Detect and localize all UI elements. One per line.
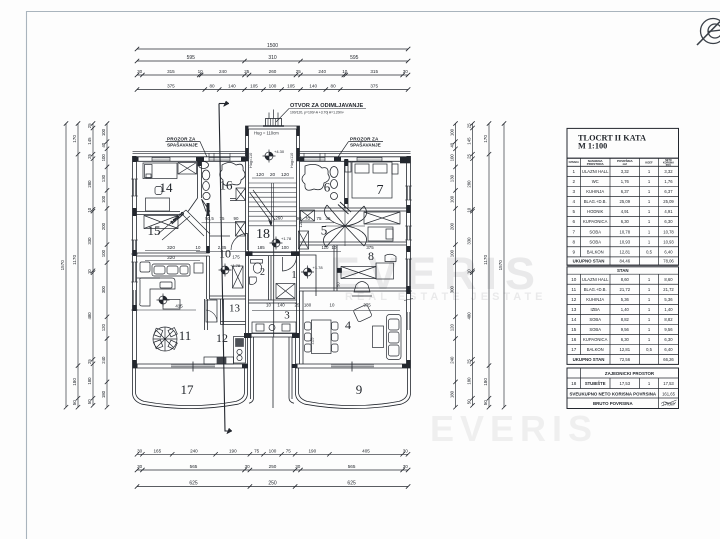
svg-text:11: 11	[571, 287, 576, 292]
bottom dimension chain 30/165/240...	[137, 453, 408, 455]
svg-text:12,81: 12,81	[620, 249, 631, 254]
svg-text:KUPAONICA: KUPAONICA	[583, 337, 608, 342]
svg-text:OZNAKA: OZNAKA	[569, 161, 579, 164]
svg-text:3: 3	[284, 310, 290, 322]
svg-text:480: 480	[87, 312, 92, 320]
svg-text:260: 260	[269, 69, 277, 74]
svg-text:1: 1	[648, 317, 651, 322]
table rows apartment 2	[567, 273, 679, 275]
svg-text:+1.78: +1.78	[313, 265, 324, 270]
interior dim lines	[202, 222, 246, 224]
svg-text:2: 2	[260, 267, 265, 278]
svg-text:140: 140	[309, 84, 317, 89]
room 4 sofa	[353, 304, 401, 359]
svg-text:13: 13	[229, 303, 241, 315]
svg-text:1: 1	[648, 287, 651, 292]
svg-text:25: 25	[295, 303, 300, 308]
svg-text:70: 70	[305, 216, 310, 221]
svg-text:320: 320	[167, 255, 175, 261]
svg-text:1570: 1570	[60, 260, 65, 271]
svg-text:1: 1	[648, 277, 651, 282]
svg-text:75: 75	[220, 216, 225, 221]
svg-text:175: 175	[232, 255, 240, 260]
svg-text:66,26: 66,26	[663, 357, 674, 362]
svg-text:320: 320	[167, 245, 175, 251]
svg-text:5,36: 5,36	[621, 297, 630, 302]
closets X right of stair tower	[299, 210, 315, 249]
svg-text:9: 9	[573, 249, 576, 254]
svg-text:KUHINJA: KUHINJA	[586, 189, 604, 194]
svg-text:25: 25	[244, 69, 250, 74]
svg-text:100: 100	[269, 84, 277, 89]
svg-text:120: 120	[298, 220, 303, 228]
svg-text:1: 1	[648, 179, 651, 184]
svg-text:16: 16	[571, 337, 577, 342]
svg-text:13: 13	[571, 307, 577, 312]
svg-text:300: 300	[450, 286, 455, 294]
room 15 closet X	[144, 216, 178, 229]
svg-text:6,30: 6,30	[664, 219, 673, 224]
svg-text:8,60: 8,60	[621, 277, 630, 282]
balcony doors bottom wall	[171, 365, 374, 367]
svg-text:1: 1	[648, 327, 651, 332]
stair tower walls	[246, 126, 300, 334]
watermark	[330, 248, 598, 449]
bottom dimension chain 30/565/30/250	[137, 469, 408, 471]
svg-text:1: 1	[648, 199, 651, 204]
svg-text:100: 100	[281, 245, 289, 250]
svg-text:OTVOR ZA ODIMLJAVANJE: OTVOR ZA ODIMLJAVANJE	[290, 103, 364, 109]
svg-text:75: 75	[317, 216, 322, 221]
svg-text:BALKON: BALKON	[587, 249, 604, 254]
svg-text:17,53: 17,53	[620, 381, 631, 386]
svg-text:8: 8	[368, 249, 374, 263]
svg-text:50: 50	[72, 400, 77, 406]
svg-text:1570: 1570	[498, 260, 503, 271]
svg-text:9,56: 9,56	[621, 327, 630, 332]
svg-text:18: 18	[571, 381, 577, 386]
svg-text:KOEF: KOEF	[645, 161, 653, 165]
top dimension chain 1500	[137, 48, 408, 50]
bathroom 16 fixtures	[199, 162, 246, 200]
svg-text:405: 405	[362, 449, 370, 454]
svg-text:7: 7	[377, 183, 384, 198]
svg-text:145: 145	[467, 137, 472, 145]
room 4 dining table	[305, 320, 339, 354]
svg-text:75: 75	[254, 449, 260, 454]
svg-text:2,35: 2,35	[218, 245, 227, 250]
svg-text:10,93: 10,93	[663, 239, 674, 244]
balcony 9 outline	[296, 368, 411, 409]
svg-text:1,76: 1,76	[621, 179, 630, 184]
furniture room 14 bed	[143, 163, 177, 195]
svg-text:8,60: 8,60	[664, 277, 673, 282]
svg-text:25: 25	[296, 69, 302, 74]
svg-text:KUHINJA: KUHINJA	[586, 297, 604, 302]
interior walls	[137, 160, 407, 365]
svg-text:BLAG.+D.B.: BLAG.+D.B.	[584, 287, 607, 292]
svg-text:100: 100	[450, 249, 455, 257]
bathroom 6 fixtures	[302, 164, 338, 199]
balcony door mullions	[193, 362, 352, 372]
svg-text:5: 5	[573, 209, 576, 214]
svg-text:240: 240	[219, 69, 227, 74]
section line	[219, 101, 274, 434]
svg-text:BLAG.+D.B.: BLAG.+D.B.	[584, 199, 607, 204]
svg-text:30: 30	[137, 449, 143, 454]
svg-text:120: 120	[450, 324, 455, 332]
svg-text:1: 1	[648, 189, 651, 194]
dimension chains	[60, 43, 506, 488]
svg-text:1: 1	[648, 337, 651, 342]
svg-text:625: 625	[347, 481, 356, 487]
svg-text:595: 595	[187, 55, 196, 61]
otvor za odimljavanje vent	[263, 110, 284, 127]
svg-text:180: 180	[72, 378, 77, 386]
svg-text:4: 4	[345, 318, 351, 332]
room 3 kitchen	[252, 322, 296, 333]
svg-text:180: 180	[450, 390, 455, 398]
svg-text:0,5: 0,5	[646, 249, 652, 254]
left wall window marks	[131, 179, 413, 330]
svg-text:POV.: POV.	[666, 164, 672, 167]
svg-text:30: 30	[295, 464, 301, 469]
area table	[567, 128, 679, 408]
svg-text:UKUPNO STAN: UKUPNO STAN	[573, 259, 605, 264]
svg-text:170: 170	[483, 135, 488, 143]
svg-text:PROSTORA: PROSTORA	[587, 162, 605, 166]
svg-text:105: 105	[287, 84, 295, 89]
svg-text:WC: WC	[592, 179, 599, 184]
svg-text:1,40: 1,40	[664, 307, 673, 312]
living room L sofa	[140, 278, 180, 309]
wc 2 fixtures	[250, 260, 263, 285]
table header row	[567, 157, 679, 159]
svg-text:6,30: 6,30	[621, 337, 630, 342]
svg-text:1: 1	[648, 219, 651, 224]
svg-text:50,5: 50,5	[205, 216, 214, 221]
top wall window marks	[152, 153, 382, 161]
hall 10 detail	[233, 266, 244, 288]
svg-text:STUBIŠTE: STUBIŠTE	[585, 381, 606, 386]
hall 1 door arc	[283, 257, 297, 271]
svg-text:SOBA: SOBA	[589, 327, 601, 332]
svg-text:+1.78: +1.78	[230, 263, 241, 268]
svg-text:1: 1	[648, 209, 651, 214]
svg-text:SVEUKUPNO NETO KORISNA POVRSIN: SVEUKUPNO NETO KORISNA POVRSINA	[569, 391, 656, 396]
svg-text:180: 180	[101, 390, 106, 398]
kitchen 12 counters	[204, 300, 246, 364]
svg-text:170,63: 170,63	[662, 402, 675, 408]
svg-text:8,82: 8,82	[664, 317, 673, 322]
stairwell lower wall	[249, 253, 297, 256]
svg-text:4,91: 4,91	[664, 209, 673, 214]
svg-text:315: 315	[370, 69, 378, 74]
svg-text:21,72: 21,72	[663, 287, 674, 292]
stairs room 18	[249, 183, 297, 226]
svg-text:6,40: 6,40	[664, 347, 673, 352]
svg-text:1: 1	[648, 307, 651, 312]
bedroom 7 bed	[345, 162, 398, 198]
svg-text:3: 3	[573, 189, 576, 194]
svg-text:8,82: 8,82	[621, 317, 630, 322]
svg-text:10: 10	[87, 269, 92, 274]
left dimension chain 170/1170/180/50	[77, 124, 79, 408]
svg-text:10: 10	[467, 269, 472, 274]
svg-text:100: 100	[101, 154, 106, 162]
svg-text:1,76: 1,76	[664, 179, 673, 184]
svg-text:M 1:100: M 1:100	[578, 142, 607, 151]
svg-text:10,78: 10,78	[620, 229, 631, 234]
svg-text:100: 100	[101, 128, 106, 136]
svg-text:20: 20	[270, 172, 276, 178]
svg-text:6,30: 6,30	[621, 219, 630, 224]
svg-text:KUPAONICA: KUPAONICA	[583, 219, 608, 224]
svg-text:6,37: 6,37	[664, 189, 673, 194]
svg-text:Hug=110: Hug=110	[249, 153, 253, 168]
outer wall outline	[133, 151, 411, 368]
room 8 bed X	[337, 254, 396, 296]
svg-text:300: 300	[101, 286, 106, 294]
left dimension chain 1570	[65, 124, 67, 408]
svg-text:1: 1	[648, 297, 651, 302]
svg-text:10: 10	[266, 303, 271, 308]
svg-text:161,65: 161,65	[662, 391, 675, 396]
right dimension chain small segments	[472, 124, 474, 406]
svg-text:100: 100	[450, 195, 455, 203]
svg-text:SOBA: SOBA	[589, 239, 601, 244]
svg-text:12,81: 12,81	[620, 347, 631, 352]
svg-text:170: 170	[72, 135, 77, 143]
svg-text:315: 315	[167, 69, 175, 74]
closet X room 5/8	[364, 212, 400, 241]
room 11 round table	[153, 327, 177, 351]
svg-text:30: 30	[403, 464, 409, 469]
svg-text:120: 120	[256, 172, 264, 178]
svg-text:11: 11	[179, 328, 192, 343]
svg-text:3,32: 3,32	[664, 169, 673, 174]
svg-text:50: 50	[483, 400, 488, 406]
svg-text:375: 375	[370, 84, 378, 89]
svg-text:100: 100	[101, 249, 106, 257]
svg-text:1: 1	[648, 169, 651, 174]
closet X room 14	[146, 163, 197, 212]
svg-text:185: 185	[257, 245, 265, 250]
svg-text:375: 375	[366, 245, 374, 250]
svg-text:BRUTO POVRSINA: BRUTO POVRSINA	[593, 401, 634, 406]
svg-text:10: 10	[196, 245, 201, 250]
svg-text:UKUPNO STAN: UKUPNO STAN	[573, 357, 605, 362]
svg-text:240: 240	[450, 356, 455, 364]
svg-text:280: 280	[87, 180, 92, 188]
svg-text:145: 145	[87, 137, 92, 145]
svg-text:12: 12	[571, 297, 577, 302]
svg-text:9: 9	[356, 382, 363, 397]
top dimension chain 375/80/140...	[137, 89, 408, 91]
svg-text:100: 100	[269, 449, 277, 454]
svg-text:330: 330	[467, 237, 472, 245]
svg-text:72,56: 72,56	[620, 357, 631, 362]
svg-text:25,09: 25,09	[620, 199, 631, 204]
left dimension chain small segments	[92, 124, 94, 406]
svg-text:5,36: 5,36	[664, 297, 673, 302]
svg-text:260: 260	[275, 216, 283, 221]
svg-text:240: 240	[101, 356, 106, 364]
svg-text:18: 18	[256, 227, 270, 242]
svg-text:m2: m2	[623, 162, 628, 166]
svg-text:10,78: 10,78	[663, 229, 674, 234]
svg-text:3,32: 3,32	[621, 169, 630, 174]
svg-text:130: 130	[450, 174, 455, 182]
svg-text:105: 105	[250, 84, 258, 89]
svg-text:190: 190	[229, 449, 237, 454]
right dimension chain 170/1170	[488, 124, 490, 408]
svg-text:375: 375	[167, 84, 175, 89]
svg-text:14: 14	[571, 317, 577, 322]
svg-text:17: 17	[181, 382, 195, 397]
svg-text:STAN: STAN	[617, 268, 629, 273]
svg-text:+4.30: +4.30	[274, 149, 285, 154]
table title block	[567, 128, 679, 265]
svg-text:BALKON: BALKON	[587, 347, 604, 352]
svg-text:REAL ESTATE JESTATE: REAL ESTATE JESTATE	[345, 291, 547, 303]
hall 10 door arc	[231, 234, 248, 251]
crosshair symbols	[263, 150, 276, 163]
svg-text:10: 10	[571, 277, 577, 282]
svg-text:180: 180	[467, 377, 472, 385]
svg-text:280: 280	[467, 180, 472, 188]
svg-text:10: 10	[332, 245, 337, 250]
svg-text:10: 10	[330, 303, 335, 308]
svg-text:ULAZNI HALL: ULAZNI HALL	[582, 277, 609, 282]
svg-text:200: 200	[101, 222, 106, 230]
bottom dimension chain 625/250/625	[137, 486, 408, 488]
svg-text:165: 165	[153, 449, 161, 454]
svg-text:15: 15	[148, 223, 161, 238]
table zajednicki prostor	[567, 368, 679, 409]
svg-text:80: 80	[331, 84, 337, 89]
center walkway between balconies	[248, 337, 296, 403]
svg-text:1: 1	[573, 169, 576, 174]
svg-text:+1.78: +1.78	[281, 236, 292, 241]
svg-text:2: 2	[573, 179, 576, 184]
room 5 plant star	[323, 205, 366, 247]
svg-text:21,72: 21,72	[620, 287, 631, 292]
svg-text:10: 10	[87, 207, 92, 212]
svg-text:100: 100	[450, 128, 455, 136]
room 15 door diagonals	[158, 210, 210, 240]
svg-text:1,40: 1,40	[621, 307, 630, 312]
svg-text:4,91: 4,91	[621, 209, 630, 214]
svg-text:1500: 1500	[267, 43, 278, 49]
svg-text:SOBA: SOBA	[589, 229, 601, 234]
svg-text:140: 140	[277, 303, 285, 308]
svg-text:120: 120	[281, 172, 289, 178]
svg-text:SOBA: SOBA	[589, 317, 601, 322]
svg-text:595: 595	[350, 55, 359, 61]
svg-text:1: 1	[648, 381, 651, 386]
svg-text:180: 180	[87, 377, 92, 385]
svg-text:5: 5	[321, 223, 328, 238]
svg-text:180: 180	[483, 378, 488, 386]
svg-text:1170: 1170	[72, 255, 77, 265]
svg-text:1: 1	[291, 269, 297, 281]
svg-text:250: 250	[268, 481, 277, 487]
svg-text:IZBA: IZBA	[591, 307, 601, 312]
svg-text:4: 4	[573, 199, 576, 204]
svg-text:Hug=110: Hug=110	[290, 153, 294, 168]
svg-text:HODNIK: HODNIK	[587, 209, 603, 214]
svg-text:6,37: 6,37	[621, 189, 630, 194]
svg-text:17: 17	[571, 347, 577, 352]
svg-text:100: 100	[450, 154, 455, 162]
svg-text:80: 80	[209, 84, 215, 89]
svg-text:100/120, p=100/-A +3.70j A=1: 100/120, p=100/-A +3.70j A=1.20m²	[290, 111, 345, 115]
table rows apartment 1	[567, 175, 679, 177]
center bottom wall	[246, 334, 300, 338]
svg-text:565: 565	[190, 464, 198, 469]
svg-text:1: 1	[648, 229, 651, 234]
svg-text:565: 565	[348, 464, 356, 469]
svg-text:75: 75	[286, 449, 292, 454]
svg-text:7: 7	[573, 229, 576, 234]
svg-text:15: 15	[571, 327, 577, 332]
svg-text:310: 310	[268, 55, 277, 61]
wall piers	[133, 157, 139, 162]
svg-text:25,09: 25,09	[663, 199, 674, 204]
svg-text:625: 625	[189, 481, 198, 487]
svg-text:30: 30	[137, 69, 143, 74]
svg-text:50: 50	[336, 282, 341, 287]
svg-text:415: 415	[175, 304, 183, 309]
svg-text:30: 30	[403, 69, 409, 74]
svg-text:78,06: 78,06	[663, 259, 674, 264]
closet X right of room 16	[230, 188, 246, 236]
svg-text:190: 190	[308, 449, 316, 454]
svg-text:140: 140	[228, 84, 236, 89]
svg-text:17,53: 17,53	[663, 381, 674, 386]
svg-text:8: 8	[573, 239, 576, 244]
svg-text:130: 130	[101, 174, 106, 182]
hall 1 closet X	[276, 284, 295, 299]
label otvor za odimljavanje	[276, 103, 366, 122]
right dimension chain inner	[455, 124, 457, 408]
balcony 17 outline	[133, 368, 248, 409]
svg-text:240: 240	[190, 449, 198, 454]
top dimension chain 595/310/595	[137, 60, 408, 62]
svg-text:100: 100	[101, 195, 106, 203]
svg-text:480: 480	[467, 312, 472, 320]
svg-text:90: 90	[234, 216, 239, 221]
label prozor za spasavanje right	[338, 136, 383, 157]
svg-text:12: 12	[216, 331, 228, 345]
svg-text:0,5: 0,5	[646, 347, 652, 352]
svg-text:EVERIS: EVERIS	[430, 408, 598, 449]
svg-text:ZAJEDNICKI PROSTOR: ZAJEDNICKI PROSTOR	[605, 371, 655, 376]
svg-text:9,56: 9,56	[664, 327, 673, 332]
svg-text:ULAZNI HALL: ULAZNI HALL	[582, 169, 609, 174]
top dimension chain 30..315..	[137, 74, 408, 76]
svg-text:PROZOR ZA: PROZOR ZA	[350, 136, 379, 141]
svg-text:240: 240	[318, 69, 326, 74]
svg-text:1: 1	[648, 239, 651, 244]
right dimension chain 1570	[503, 124, 505, 408]
svg-text:84,46: 84,46	[620, 259, 631, 264]
svg-text:30: 30	[245, 464, 251, 469]
svg-text:6,30: 6,30	[664, 337, 673, 342]
svg-text:30: 30	[137, 464, 143, 469]
svg-text:330: 330	[87, 237, 92, 245]
